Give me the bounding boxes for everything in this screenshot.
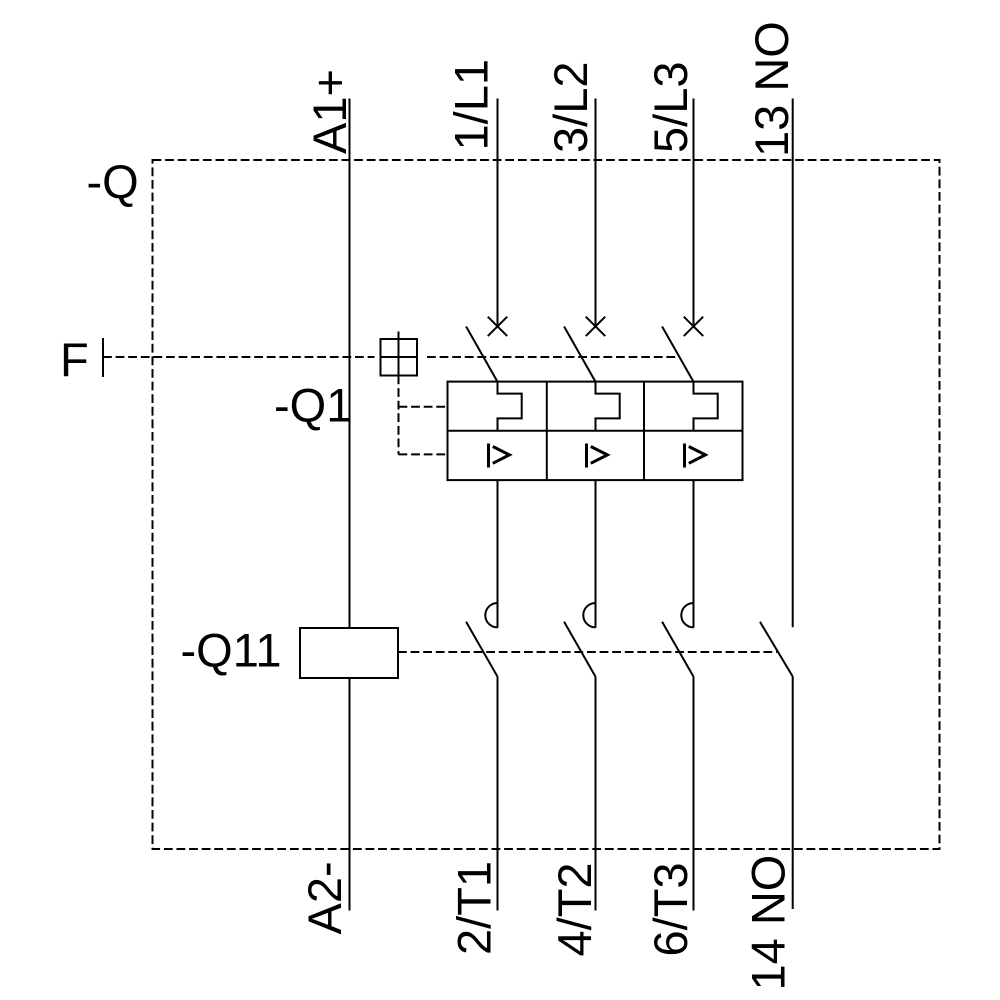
trip line F terminal tick: [102, 338, 104, 377]
mechanical linkage (dashed) into magnetic release row: [399, 453, 448, 455]
breaker contact cross, pole 3: [684, 317, 703, 336]
mechanical linkage (dashed) -Q11 to auxiliary contact: [398, 651, 777, 653]
magnetic overcurrent release I> , pole 1: [489, 444, 510, 468]
thermal overload release, pole 1: [498, 382, 522, 431]
svg-text:F: F: [60, 333, 89, 386]
wire 1/L1 (incoming, upper): [497, 99, 499, 327]
wire pole 1 below release block: [497, 480, 499, 628]
wire 6/T3 (outgoing, lower): [693, 677, 695, 911]
wire pole 2 below release block: [595, 480, 597, 628]
release block cell divider 1: [546, 382, 548, 481]
enclosure boundary -Q (dashed outline): [153, 160, 940, 849]
trip line F (dashed, left of actuator square): [103, 356, 375, 358]
mechanical linkage (dashed) from actuator down: [398, 376, 400, 455]
fixed contact hook, pole 2: [583, 603, 595, 627]
svg-text:1/L1: 1/L1: [445, 59, 498, 150]
svg-text:-Q11: -Q11: [181, 624, 282, 677]
wire A2 (coil supply, lower): [349, 678, 351, 911]
mechanical linkage (dashed) into thermal release row: [399, 406, 448, 408]
svg-text:3/L2: 3/L2: [544, 62, 597, 153]
release block cell divider 2: [643, 382, 645, 481]
svg-text:14 NO: 14 NO: [742, 855, 795, 991]
svg-text:A1+: A1+: [303, 69, 356, 154]
actuator square (operating mechanism): [381, 339, 418, 376]
main contact blade, pole 3: [662, 622, 693, 677]
wire A1 (coil supply, upper): [349, 99, 351, 629]
thermal overload release, pole 3: [694, 382, 718, 431]
wire 5/L3 (incoming, upper): [693, 99, 695, 327]
breaker blade, pole 3: [662, 327, 693, 382]
wire 13 NO (auxiliary, upper): [792, 99, 794, 628]
breaker blade, pole 2: [564, 327, 595, 382]
breaker blade, pole 1: [466, 327, 497, 382]
fixed contact hook, pole 3: [681, 603, 693, 627]
trip line F (solid, through actuator square): [381, 356, 418, 358]
wire 4/T2 (outgoing, lower): [595, 677, 597, 911]
actuator square vertical stroke: [398, 332, 400, 376]
fixed contact hook, pole 1: [485, 603, 497, 627]
auxiliary actuator -Q11 box: [300, 628, 398, 678]
main contact blade, pole 2: [564, 622, 595, 677]
release block -Q1 outline: [448, 382, 743, 481]
auxiliary contact blade 13-14: [760, 622, 793, 677]
svg-text:13 NO: 13 NO: [745, 21, 798, 157]
wire 3/L2 (incoming, upper): [595, 99, 597, 327]
svg-text:6/T3: 6/T3: [644, 862, 697, 956]
main contact blade, pole 1: [466, 622, 497, 677]
breaker contact cross, pole 1: [488, 317, 507, 336]
breaker contact cross, pole 2: [586, 317, 605, 336]
svg-text:4/T2: 4/T2: [548, 862, 601, 956]
svg-text:2/T1: 2/T1: [448, 861, 501, 955]
wire 14 NO (auxiliary, lower): [792, 677, 794, 910]
trip line F (dashed, right of actuator square to pole 3 blade): [427, 356, 680, 358]
svg-text:A2-: A2-: [298, 861, 351, 934]
release block row divider: [448, 430, 743, 432]
svg-text:-Q: -Q: [87, 155, 139, 208]
magnetic overcurrent release I> , pole 2: [587, 444, 608, 468]
wire pole 3 below release block: [693, 480, 695, 628]
svg-text:-Q1: -Q1: [274, 379, 352, 432]
thermal overload release, pole 2: [596, 382, 620, 431]
wire 2/T1 (outgoing, lower): [497, 677, 499, 911]
magnetic overcurrent release I> , pole 3: [685, 444, 706, 468]
svg-text:5/L3: 5/L3: [644, 62, 697, 153]
